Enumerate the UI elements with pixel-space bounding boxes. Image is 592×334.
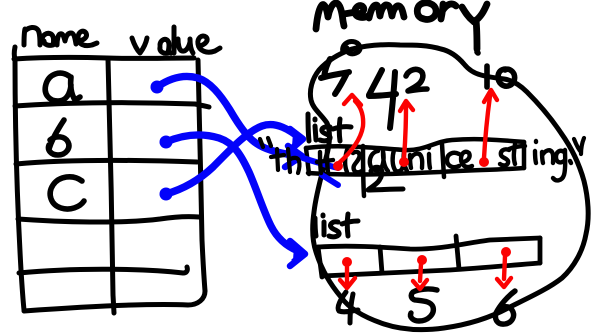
letter a	[45, 73, 80, 101]
blue arrow a	[157, 76, 302, 167]
digit 2	[406, 69, 427, 91]
digit 7	[321, 59, 349, 94]
header value	[132, 38, 147, 53]
blue overshoot into box	[303, 158, 338, 185]
red arrow 4 down	[340, 266, 355, 288]
top edge	[14, 47, 194, 59]
column divider	[108, 59, 114, 313]
letter b	[48, 120, 68, 155]
word is (in box cell1)	[317, 150, 363, 173]
word string	[500, 141, 571, 180]
red dot 3 (top box)	[479, 157, 489, 167]
blue arrow c	[166, 125, 303, 194]
quote + word this (left of box)	[260, 138, 299, 173]
right edge	[198, 60, 205, 291]
red dot 4 (bottom box)	[342, 257, 352, 267]
word nice	[410, 147, 472, 168]
red dot 2 (top box)	[399, 157, 409, 167]
bottom list box	[318, 236, 540, 277]
row line 2	[16, 160, 197, 164]
memory blob outline	[310, 45, 588, 330]
red dot 1 (top box)	[333, 161, 343, 171]
letter C	[50, 177, 84, 209]
squiggle 12 under box	[368, 167, 403, 190]
digit 4 big	[369, 70, 396, 128]
blue dot b	[160, 136, 173, 149]
divider 1	[380, 247, 382, 273]
left edge	[15, 59, 24, 310]
label list (top)	[308, 114, 351, 141]
row line 1	[15, 103, 209, 107]
digit 4 (bottom)	[338, 292, 358, 323]
table headers	[24, 27, 220, 53]
blob loop decoration	[343, 42, 360, 54]
red arrow 6 down	[497, 256, 511, 287]
red arrow 2 up	[400, 101, 413, 158]
blue dot c	[160, 188, 173, 201]
table grid	[14, 47, 209, 313]
bottom edge	[24, 291, 205, 311]
row line 3	[18, 217, 199, 222]
blue arrow b	[166, 135, 305, 266]
top box (str/list object)	[306, 139, 524, 196]
closing quote mark	[574, 138, 584, 154]
red arrow 5 down	[413, 264, 427, 289]
red dot 5 (bottom box)	[417, 255, 427, 265]
divider 1 with overshoot	[363, 146, 364, 196]
blue dot a	[151, 81, 164, 94]
red arrow 3 up	[484, 90, 497, 158]
header name	[24, 27, 40, 45]
word a (in box cell2)	[370, 150, 407, 171]
digit 5 (bottom)	[410, 289, 437, 321]
label list (bottom)	[315, 214, 358, 237]
divider 2	[442, 144, 444, 177]
row line 4	[19, 267, 187, 273]
title Memory	[316, 3, 487, 49]
red arrow 1 up	[339, 95, 363, 163]
digit 6 (bottom)	[495, 291, 515, 324]
number 10	[477, 52, 515, 87]
divider 2	[456, 236, 459, 269]
red dot 6 (bottom box)	[501, 247, 511, 257]
